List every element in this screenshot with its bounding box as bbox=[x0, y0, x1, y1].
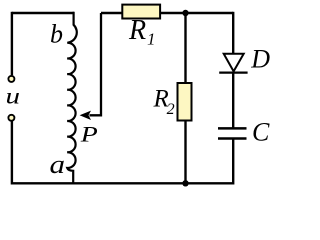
svg-text:C: C bbox=[252, 118, 270, 147]
svg-text:2: 2 bbox=[167, 101, 175, 118]
svg-text:a: a bbox=[50, 150, 66, 179]
svg-text:D: D bbox=[250, 44, 270, 73]
svg-text:u: u bbox=[6, 84, 21, 109]
svg-text:R: R bbox=[128, 15, 146, 46]
svg-text:1: 1 bbox=[147, 30, 156, 49]
svg-text:b: b bbox=[50, 20, 63, 49]
svg-text:P: P bbox=[80, 122, 99, 147]
